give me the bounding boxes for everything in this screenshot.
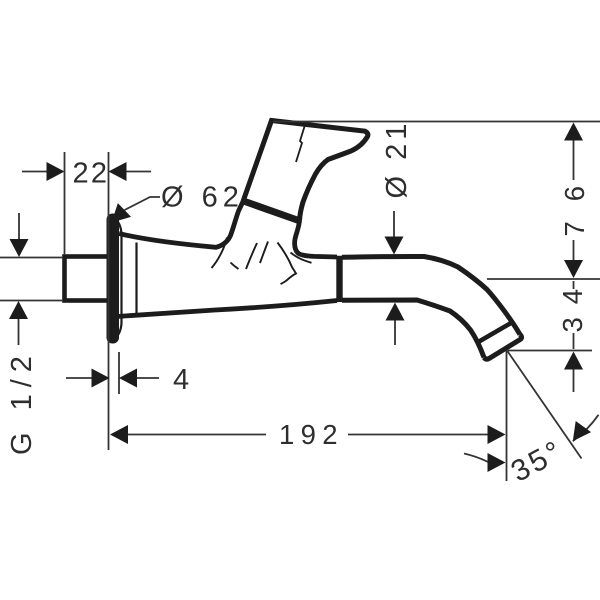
wall flange (side view): [107, 214, 120, 344]
arrow 34 bottom: [564, 352, 583, 370]
svg-text:35°: 35°: [506, 434, 570, 489]
4 dim right shaft: [136, 377, 159, 379]
35 arc tail right: [573, 415, 599, 441]
pipe OD ext top: [0, 257, 63, 259]
dia62 leader: [125, 197, 161, 210]
arrow 192 left: [110, 425, 128, 444]
pipe OD dim bottom shaft: [18, 318, 20, 345]
svg-text:Ø 21: Ø 21: [381, 120, 413, 199]
192 dim line left part: [128, 434, 266, 436]
faucet body bottom edge: [117, 301, 337, 317]
aerator band line: [477, 322, 514, 344]
decor streak 6 curl: [291, 253, 312, 263]
dia21 bottom shaft: [394, 320, 396, 345]
decor streak 2: [246, 243, 257, 269]
pipe OD dim top shaft: [18, 213, 20, 241]
22 dim right arrow shaft: [124, 171, 151, 173]
22 dim left arrow shaft: [22, 171, 49, 173]
svg-text:Ø 62: Ø 62: [161, 182, 244, 214]
nozzle end face: [484, 335, 522, 360]
ext line vertical from nozzle tip: [506, 351, 508, 482]
arrow dia62: [105, 203, 131, 229]
svg-text:22: 22: [73, 158, 111, 190]
body section line near flange: [135, 243, 137, 314]
22 ext line left: [64, 152, 66, 255]
arrow 192 right: [488, 425, 506, 444]
handle crease: [296, 127, 305, 163]
arrow pipe OD down: [10, 239, 29, 257]
35 arc tail left: [464, 454, 488, 462]
decor streak 3: [260, 242, 268, 264]
arrow 22 left: [47, 162, 65, 181]
arrow dia21 down: [385, 237, 404, 255]
arrow 76 bottom: [564, 260, 583, 278]
threaded pipe G1/2: [65, 257, 111, 301]
ext line top (y=121.5): [273, 121, 600, 123]
arrow 76 top: [564, 123, 583, 141]
svg-text:192: 192: [279, 419, 341, 450]
decor streak 4: [231, 263, 239, 270]
arrow 4 right: [119, 369, 137, 388]
34 dim shafts: [573, 281, 575, 289]
spout joint ring: [336, 256, 342, 302]
arrow 35 arc at vertical: [488, 453, 506, 472]
svg-text:G 1/2: G 1/2: [6, 349, 38, 455]
arrow 4 left: [92, 369, 110, 388]
dome right side into spout top: [295, 221, 337, 258]
decor streak 5 hook: [278, 243, 297, 285]
diagonal 35 deg line: [507, 351, 582, 459]
arrow pipe OD up: [9, 301, 28, 319]
flange right face contour: [112, 215, 122, 342]
arrow dia21 up: [386, 303, 405, 321]
handle lever: [243, 121, 368, 221]
ext line mid right (y=279): [487, 278, 600, 280]
ext line nozzle tip horizontal (y=350.5): [508, 350, 592, 352]
4 dim left shaft: [66, 377, 93, 379]
handle-dome joint: [242, 201, 300, 222]
decor streak 1: [212, 238, 228, 269]
svg-text:4: 4: [173, 364, 193, 396]
svg-text:76: 76: [559, 183, 590, 237]
4 ext line flange face: [118, 352, 120, 394]
svg-text:34: 34: [557, 286, 588, 333]
76 dim shafts: [573, 139, 575, 180]
arrow 35 arc at diagonal: [565, 421, 591, 447]
spout tube bottom/inner edge: [342, 300, 484, 358]
pipe OD ext bottom: [0, 300, 63, 302]
spout tube top/outer edge to nozzle: [342, 256, 520, 334]
wall ext line long: [108, 152, 110, 450]
arrow 22 right: [109, 162, 127, 181]
192 dim line right part: [348, 434, 488, 436]
dia21 leader shaft: [393, 211, 395, 238]
faucet body outline (top edge + dome left): [119, 202, 243, 248]
